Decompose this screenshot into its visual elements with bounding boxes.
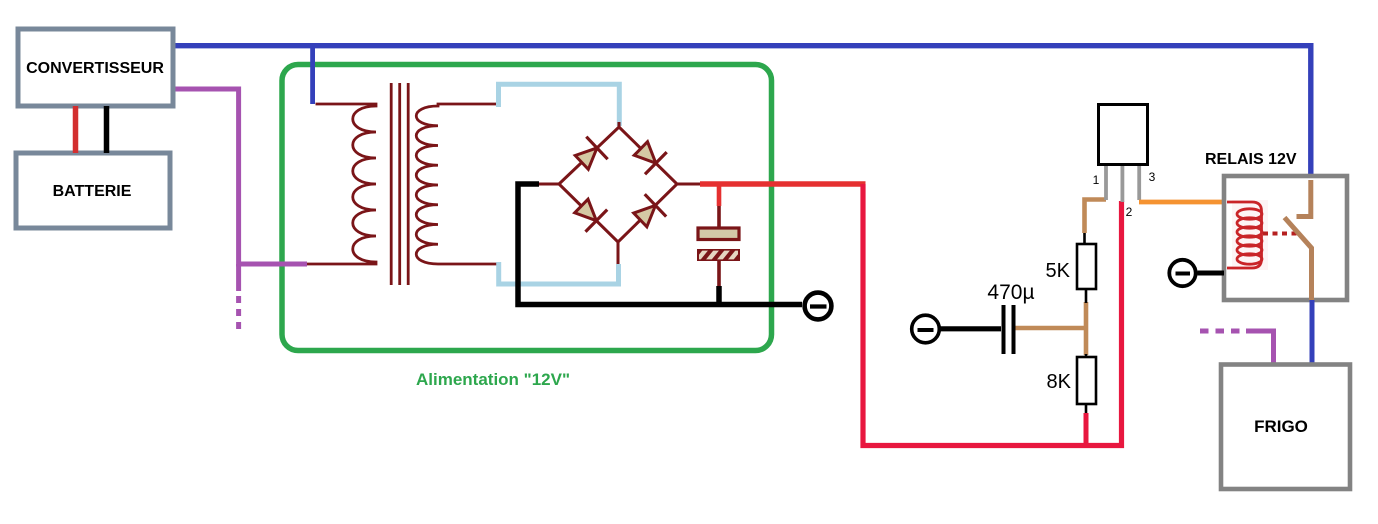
relay coil K1 loops (1237, 209, 1262, 264)
transistor Q1 pin 3 (1137, 166, 1141, 200)
wire purple converter output (173, 89, 307, 264)
wire orange pin3 to relay (1139, 200, 1224, 205)
capacitor C1 top plate (698, 228, 739, 240)
capacitor C1 bottom plate hatched (695, 247, 752, 263)
transformer T1 core (390, 83, 393, 285)
resistor R1 5K lead bottom (1085, 289, 1088, 303)
capacitor C1 top lead (717, 206, 721, 228)
svg-text:1: 1 (1093, 173, 1100, 187)
svg-text:Alimentation "12V": Alimentation "12V" (416, 370, 570, 389)
box FRIGO (1221, 365, 1350, 490)
bridge stub top (618, 122, 621, 127)
wire black ground to cap 470 (940, 326, 1002, 331)
diode D4 bottom-right (630, 194, 667, 231)
box CONVERTISSEUR (18, 29, 173, 106)
diode D1 top-left (571, 137, 608, 174)
box BATTERIE (16, 153, 170, 228)
wire purple dashed tail (236, 296, 241, 331)
capacitor C1 bottom lead (717, 261, 721, 286)
svg-text:2: 2 (1126, 205, 1133, 219)
bridge stub left (537, 183, 559, 186)
svg-text:3: 3 (1149, 170, 1156, 184)
enclosure Alimentation 12V green box (282, 65, 772, 351)
resistor R2 8K body (1077, 357, 1096, 404)
diode bridge frame (559, 127, 677, 242)
relay coil K1 glow (1232, 200, 1268, 270)
resistor R2 8K lead bottom (1085, 404, 1088, 414)
svg-text:470µ: 470µ (987, 281, 1034, 304)
svg-text:8K: 8K (1047, 371, 1072, 393)
svg-text:BATTERIE: BATTERIE (53, 183, 132, 200)
wire black converter-battery (104, 106, 110, 153)
transformer T1 primary winding (307, 104, 376, 264)
transistor Q1 body (1099, 105, 1148, 165)
diode D3 bottom-left (571, 195, 608, 232)
capacitor C2 470u plates (1002, 305, 1006, 354)
transformer T1 secondary winding (416, 104, 497, 264)
wire red positive output of bridge (700, 181, 866, 186)
transistor Q1 pin 1 (1104, 166, 1108, 200)
ground G2 symbol (912, 315, 940, 343)
ground G3 symbol (1169, 260, 1195, 286)
wire tan divider vertical (1084, 302, 1089, 355)
wire blue relay to frigo (1310, 300, 1315, 364)
svg-text:5K: 5K (1046, 260, 1071, 282)
wire red stub to filter cap (717, 184, 722, 206)
resistor R2 8K lead top (1085, 354, 1088, 357)
wire black negative rail (518, 184, 802, 305)
wire purple solid stub down (236, 264, 241, 291)
wire red converter-battery (73, 106, 79, 153)
bridge stub bottom (617, 242, 620, 264)
wire light blue secondary bottom to bridge (499, 262, 619, 284)
bridge stub right (677, 183, 702, 186)
ground G1 symbol (805, 293, 832, 320)
wire tan base from pin1 (1085, 200, 1107, 234)
wire purple dashed to frigo (1200, 329, 1246, 334)
wire blue 12V bus top (173, 46, 1311, 180)
wire crimson power loop (863, 184, 1122, 446)
wire blue drop to transformer primary (310, 46, 315, 104)
svg-text:RELAIS 12V: RELAIS 12V (1205, 151, 1297, 168)
wire light blue secondary top to bridge (499, 84, 620, 126)
relay coil K1 bracket (1227, 202, 1262, 268)
capacitor C1 black lead to rail (716, 286, 722, 304)
box RELAIS (1224, 176, 1347, 300)
relay fixed contact (1297, 180, 1311, 217)
wire crimson 8K to rail (1084, 413, 1089, 447)
diode D2 top-right (630, 137, 667, 174)
wire black ground to relay coil (1198, 271, 1225, 276)
transistor Q1 pin 2 (1121, 166, 1125, 202)
svg-text:FRIGO: FRIGO (1254, 417, 1308, 436)
resistor R1 5K body (1077, 244, 1096, 289)
wire purple solid to frigo (1246, 331, 1274, 364)
relay actuator dotted link (1263, 232, 1298, 236)
wire tan cap to divider node (1016, 326, 1089, 331)
relay switch blade (1285, 218, 1312, 301)
svg-text:CONVERTISSEUR: CONVERTISSEUR (26, 60, 164, 77)
resistor R1 5K lead top (1083, 233, 1086, 244)
